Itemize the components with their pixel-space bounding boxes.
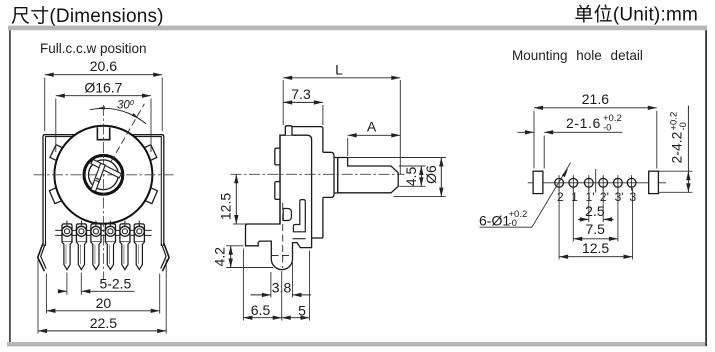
svg-text:Full.c.c.w position: Full.c.c.w position bbox=[40, 41, 147, 56]
pin 5 terminal bbox=[120, 224, 130, 242]
mounting hole 2 bbox=[558, 175, 560, 191]
shaft with flat bbox=[338, 158, 399, 193]
dimension 2-1.6 slot width bbox=[543, 136, 545, 169]
front view vertical centerline bbox=[102, 105, 104, 280]
pin 6 eyelet bbox=[134, 226, 144, 236]
dimension 22.5 bbox=[37, 260, 39, 334]
cover plate bbox=[246, 135, 312, 269]
svg-text:6-Ø1: 6-Ø1 bbox=[479, 212, 510, 228]
dimension O16.7 bbox=[55, 99, 57, 153]
strip line lower bbox=[55, 234, 151, 236]
pin 4 eyelet bbox=[105, 226, 115, 236]
dimension O6 bbox=[348, 157, 446, 159]
dimension 2.5 bbox=[588, 188, 590, 222]
pin 6 leg bbox=[134, 242, 144, 270]
pin 5 eyelet bbox=[120, 226, 130, 236]
pin 2 leg bbox=[76, 242, 86, 270]
rotor case tab lower-right bbox=[142, 186, 158, 203]
bushing bbox=[323, 152, 334, 197]
dimension A bbox=[347, 138, 349, 156]
pin 3 terminal bbox=[91, 224, 101, 242]
housing right wall lower bbox=[322, 197, 324, 238]
dimension 7.3 bbox=[322, 105, 324, 125]
svg-text:L: L bbox=[335, 62, 343, 78]
dimension 4.2 bbox=[226, 245, 243, 247]
rotor outer ring bbox=[84, 155, 123, 194]
mounting hole 3' bbox=[617, 175, 619, 191]
dimension 12.5 bbox=[233, 223, 246, 225]
dimension 21.6 bbox=[533, 111, 535, 169]
rotor slot bar horizontal bbox=[91, 159, 122, 178]
svg-text:7.3: 7.3 bbox=[291, 86, 311, 102]
dimension 6.5 and 5 bbox=[242, 249, 244, 321]
svg-text:7.5: 7.5 bbox=[585, 221, 605, 237]
svg-text:3: 3 bbox=[629, 190, 636, 204]
svg-text:Mounting hole detail: Mounting hole detail bbox=[512, 48, 643, 63]
svg-text:3': 3' bbox=[615, 190, 624, 204]
dimension 4.5 bbox=[399, 165, 426, 167]
cover left edge redraw bbox=[279, 135, 281, 224]
mounting hole 3 bbox=[631, 175, 633, 191]
arc arrowhead at vertical line bbox=[96, 106, 105, 109]
30 degree dashed index line bbox=[111, 104, 144, 162]
detail horizontal centerline bbox=[528, 182, 666, 184]
svg-text:Ø6: Ø6 bbox=[423, 165, 439, 184]
svg-text:尺寸(Dimensions): 尺寸(Dimensions) bbox=[11, 5, 164, 27]
svg-text:4.5: 4.5 bbox=[403, 167, 419, 187]
rotor cover big circle bbox=[54, 126, 152, 224]
svg-text:22.5: 22.5 bbox=[90, 315, 117, 331]
dimension 20.6 bbox=[44, 78, 46, 132]
dimension L bbox=[282, 80, 284, 125]
left slot bbox=[533, 171, 543, 193]
rotor case tab upper-left bbox=[50, 145, 66, 163]
bracket body right wall bbox=[131, 135, 164, 246]
pin 6 terminal bbox=[134, 224, 144, 242]
dimension 20 bbox=[45, 274, 47, 314]
svg-text:2-1.6: 2-1.6 bbox=[566, 115, 601, 131]
svg-text:单位(Unit):mm: 单位(Unit):mm bbox=[574, 4, 698, 26]
right bent leg bbox=[162, 244, 169, 272]
arc arrowhead at 30deg line bbox=[132, 113, 140, 119]
cover top tab bbox=[285, 126, 292, 135]
cover left lug lower bbox=[275, 182, 280, 200]
rotor case tab lower-left bbox=[49, 186, 65, 203]
dimension 3.8 bbox=[270, 272, 272, 298]
svg-text:Ø16.7: Ø16.7 bbox=[84, 79, 122, 95]
L-shaped slot bbox=[293, 200, 305, 232]
leader line 6-O1 bbox=[532, 163, 571, 227]
svg-text:1: 1 bbox=[571, 190, 578, 204]
cover left lug upper bbox=[275, 148, 280, 165]
svg-text:2-4.2: 2-4.2 bbox=[669, 131, 685, 163]
svg-text:A: A bbox=[367, 119, 377, 135]
svg-text:-0: -0 bbox=[509, 218, 517, 229]
svg-text:4.2: 4.2 bbox=[212, 247, 228, 267]
svg-text:20: 20 bbox=[96, 295, 112, 311]
pin 5 leg bbox=[120, 242, 130, 270]
bracket body left wall bbox=[43, 135, 76, 246]
frame top bar bbox=[8, 26, 707, 31]
svg-text:5-2.5: 5-2.5 bbox=[99, 276, 131, 292]
mounting hole 1 bbox=[572, 175, 574, 191]
pin 2 terminal bbox=[76, 224, 86, 242]
mounting hole 2' bbox=[602, 175, 604, 191]
left bent leg bbox=[38, 244, 45, 272]
dimension 12.5 detail bbox=[558, 188, 560, 260]
right slot bbox=[649, 171, 659, 193]
svg-text:2.5: 2.5 bbox=[585, 203, 605, 219]
housing top edge bbox=[292, 127, 323, 153]
svg-text:12.5: 12.5 bbox=[217, 193, 233, 220]
30 degree arc bbox=[90, 108, 147, 124]
svg-text:-0: -0 bbox=[603, 123, 611, 134]
collar bbox=[334, 158, 338, 194]
pin 1 terminal bbox=[62, 224, 72, 242]
svg-text:2: 2 bbox=[557, 190, 564, 204]
rotor case tab upper-right bbox=[141, 145, 157, 163]
pin 4 leg bbox=[105, 242, 115, 270]
front view horizontal centerline bbox=[34, 174, 174, 176]
svg-text:-0: -0 bbox=[678, 122, 689, 130]
pin 1 eyelet bbox=[62, 226, 72, 236]
svg-text:2': 2' bbox=[600, 190, 609, 204]
rotor slot bar vertical bbox=[91, 163, 105, 191]
top index notch bbox=[97, 127, 109, 140]
frame bottom bar bbox=[7, 342, 705, 346]
svg-text:20.6: 20.6 bbox=[90, 58, 117, 74]
pin 1 leg bbox=[62, 242, 72, 270]
svg-text:1': 1' bbox=[586, 190, 595, 204]
side view shaft centerline bbox=[231, 173, 405, 175]
dimension 7.5 bbox=[572, 188, 574, 242]
strip line upper bbox=[55, 229, 151, 231]
svg-text:12.5: 12.5 bbox=[582, 240, 609, 256]
pin 3 leg bbox=[91, 242, 101, 270]
svg-text:21.6: 21.6 bbox=[582, 91, 609, 107]
pin 4 terminal bbox=[105, 224, 115, 242]
frame left border bbox=[9, 30, 11, 342]
hidden edge bottom right bbox=[293, 238, 306, 240]
D bump on cover bbox=[283, 209, 291, 221]
svg-text:5: 5 bbox=[298, 303, 306, 319]
dimension 5-2.5 bbox=[66, 273, 68, 295]
mounting hole 1' bbox=[588, 175, 590, 191]
slot tick marks bbox=[96, 178, 101, 180]
rotor inner ring bbox=[89, 160, 119, 190]
detail vertical centerline bbox=[595, 169, 597, 193]
pin 2 eyelet bbox=[76, 226, 86, 236]
frame right border bbox=[705, 30, 707, 346]
svg-text:6.5: 6.5 bbox=[251, 302, 271, 318]
pin 3 eyelet bbox=[91, 226, 101, 236]
snap foot dashed centerline bbox=[282, 203, 284, 268]
dimension 2-4.2 slot height bbox=[658, 170, 692, 172]
